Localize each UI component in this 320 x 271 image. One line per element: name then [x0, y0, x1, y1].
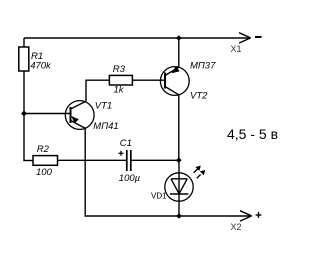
- wire VT1 emitter drop: [85, 128, 251, 216]
- wire R3 to VT2 base: [132, 79, 165, 81]
- svg-text:1k: 1k: [114, 85, 125, 96]
- svg-text:100µ: 100µ: [119, 173, 141, 184]
- wire VT2 emitter to top rail: [178, 38, 180, 67]
- wire C1 to LED node: [131, 159, 179, 161]
- wire left rail lower: [23, 71, 25, 161]
- LED VD1: [165, 160, 193, 216]
- svg-text:4,5 - 5 в: 4,5 - 5 в: [227, 126, 278, 142]
- terminal X2: [240, 211, 261, 221]
- LED emission arrows: [194, 166, 206, 179]
- terminal X1: [239, 33, 262, 43]
- wire top rail: [24, 37, 250, 39]
- svg-text:C1: C1: [120, 138, 132, 149]
- svg-text:R3: R3: [113, 64, 126, 75]
- resistor R1 470k: [19, 47, 29, 71]
- svg-text:VT2: VT2: [190, 91, 208, 102]
- node bottom rail LED: [176, 213, 182, 219]
- svg-text:VT1: VT1: [95, 101, 112, 112]
- wire R2 to C1: [58, 159, 127, 161]
- wire VT1 collector riser: [86, 80, 109, 101]
- transistor VT2 МП37: [160, 66, 189, 95]
- wire left rail upper: [23, 38, 25, 47]
- capacitor C1 100u: [119, 150, 131, 171]
- wire VT2 collector down: [178, 95, 180, 160]
- svg-text:X2: X2: [231, 222, 242, 232]
- resistor R2 100: [33, 156, 58, 166]
- svg-text:470k: 470k: [30, 60, 52, 71]
- svg-text:МП41: МП41: [93, 121, 118, 132]
- transistor VT1 МП41: [65, 101, 94, 130]
- node C1 LED junction: [176, 157, 182, 163]
- svg-text:VD1: VD1: [151, 191, 167, 200]
- svg-text:100: 100: [36, 167, 53, 178]
- node base VT1: [21, 111, 27, 117]
- wire VT1 base lead: [24, 113, 71, 115]
- svg-text:R2: R2: [37, 144, 50, 155]
- svg-text:МП37: МП37: [190, 61, 216, 72]
- resistor R3 1k: [109, 75, 132, 85]
- svg-text:X1: X1: [231, 44, 242, 54]
- node top rail junction: [176, 35, 182, 41]
- wire left rail corner to R2: [24, 160, 33, 162]
